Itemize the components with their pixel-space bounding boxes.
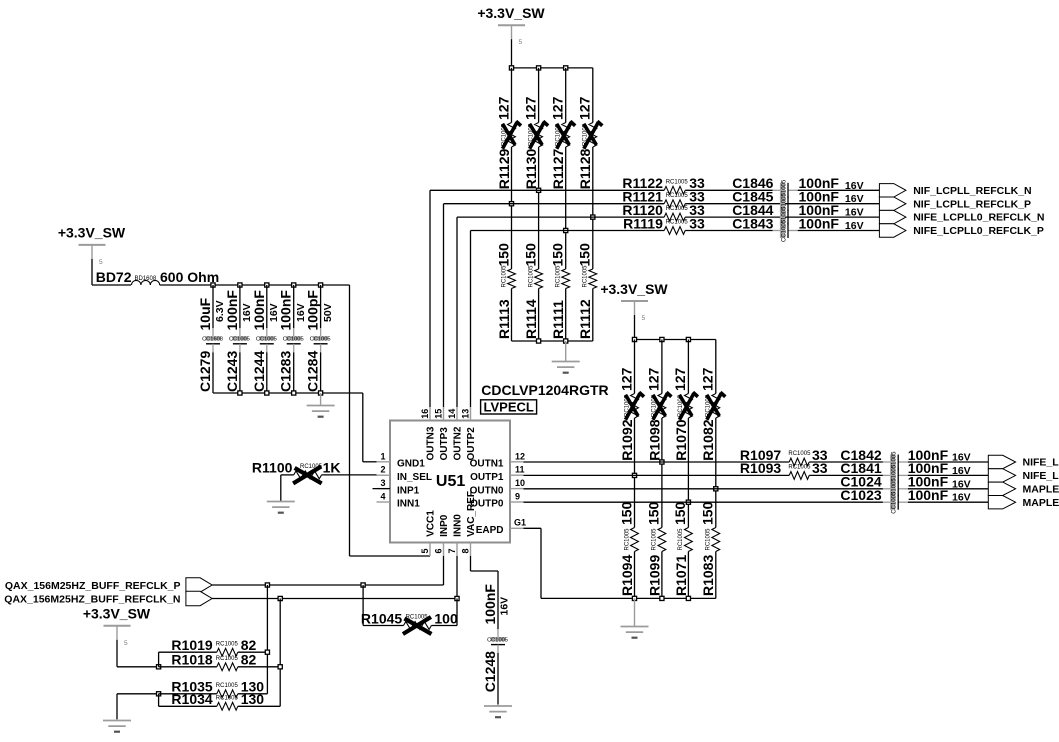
junction array1 bottom bus (537, 339, 568, 343)
svg-text:R1099: R1099 (646, 555, 662, 596)
wire R1119 to cap (685, 230, 773, 232)
svg-text:RC1005: RC1005 (666, 179, 689, 185)
junction array2 top bus (632, 337, 690, 341)
svg-text:R1093: R1093 (740, 460, 781, 476)
wire array2 col 3 (687, 340, 689, 599)
connector NIF_LCPLL_REFCLK_P (879, 197, 1031, 210)
wire array1 col 2 (538, 68, 540, 341)
svg-text:1: 1 (380, 451, 385, 461)
wire net pin10 row (524, 488, 883, 490)
wire R1093 to cap (809, 474, 883, 476)
svg-text:33: 33 (812, 460, 828, 476)
svg-text:82: 82 (241, 652, 257, 668)
power +3.3V_SW (left) (58, 225, 131, 285)
svg-text:OUTN2: OUTN2 (452, 426, 463, 460)
svg-text:RC1005: RC1005 (216, 641, 239, 647)
svg-text:150: 150 (495, 243, 511, 267)
junction R1018 right (278, 665, 282, 669)
wire ground to R1035 (117, 694, 159, 721)
connector MAPLE_REFCLK_N (988, 482, 1059, 495)
svg-text:RC1005: RC1005 (788, 451, 811, 457)
svg-text:127: 127 (646, 367, 662, 391)
svg-text:15: 15 (434, 409, 444, 419)
pin 5 VCC1 (420, 510, 436, 556)
capacitor C1024 100nF (840, 474, 970, 501)
wire array1 top bus (512, 67, 593, 69)
resistor R1114 150 (522, 243, 542, 339)
resistor R1094 150 (618, 501, 638, 596)
inductor BD72 600 Ohm (96, 269, 219, 285)
label LVPECL (481, 400, 537, 415)
svg-text:RC1005: RC1005 (678, 528, 684, 551)
svg-text:100nF: 100nF (278, 290, 294, 331)
svg-text:CC1005: CC1005 (892, 491, 898, 514)
junction QAX_P (265, 583, 365, 587)
svg-text:16V: 16V (499, 597, 511, 616)
svg-text:INN1: INN1 (397, 499, 420, 510)
svg-text:100nF: 100nF (482, 584, 498, 625)
svg-text:OUTP1: OUTP1 (470, 472, 504, 483)
svg-text:9: 9 (515, 492, 520, 502)
svg-text:2: 2 (380, 465, 385, 475)
svg-text:LVPECL: LVPECL (484, 400, 534, 415)
resistor R1082 127 (DNP) (700, 367, 726, 460)
wire R1045 loop (363, 585, 457, 626)
pin 15 OUTP3 (434, 407, 450, 461)
pin 4 INN1 (377, 492, 421, 510)
connector NIFE_LCPLL1_REFCLK_N (988, 455, 1059, 468)
wire R1097 to cap (809, 461, 883, 463)
wire R1035 right (238, 693, 268, 695)
capacitor C1843 100nF (732, 215, 863, 242)
svg-text:IN_SEL: IN_SEL (397, 472, 432, 483)
svg-text:CC1005: CC1005 (310, 337, 331, 343)
pin 10 OUTN0 (470, 478, 525, 496)
svg-text:C1283: C1283 (278, 351, 294, 392)
svg-text:R1094: R1094 (619, 555, 635, 596)
pin 1 GND1 (377, 451, 426, 469)
capacitor C1845 100nF (732, 189, 863, 216)
junction array1 rows (509, 188, 595, 232)
power +3.3V_SW (right) (600, 281, 668, 340)
ground array1 (552, 341, 580, 373)
pin 2 IN_SEL (377, 465, 433, 483)
wire net pin11 row (524, 474, 790, 476)
pin 13 OUTP2 (461, 407, 477, 461)
resistor R1128 127 (DNP) (577, 96, 603, 189)
svg-text:CC1005: CC1005 (283, 337, 304, 343)
junction cap bank bottom (238, 391, 323, 395)
resistor R1130 127 (DNP) (522, 96, 548, 189)
resistor R1018 82 (171, 652, 256, 671)
svg-text:R1071: R1071 (673, 555, 689, 596)
resistor R1035 130 (171, 679, 264, 698)
capacitor C1023 100nF (840, 487, 970, 514)
wire net OUT3 from U51 pin 13 (471, 231, 665, 408)
wire net pin9 row (524, 501, 883, 503)
svg-text:100pF: 100pF (305, 290, 321, 331)
svg-text:RC1005: RC1005 (216, 683, 239, 689)
pin 12 OUTN1 (470, 451, 525, 469)
svg-text:NIFE_LCPLL1_REFCLK_N: NIFE_LCPLL1_REFCLK_N (1023, 457, 1059, 469)
svg-text:INP0: INP0 (439, 514, 450, 537)
wire array2 col 1 (634, 340, 636, 599)
svg-text:CC1005: CC1005 (781, 219, 787, 242)
wire cap C1024 to connector (908, 488, 988, 490)
svg-text:NIFE_LCPLL0_REFCLK_P: NIFE_LCPLL0_REFCLK_P (913, 225, 1044, 237)
svg-text:RC1005: RC1005 (666, 220, 689, 226)
svg-text:INP1: INP1 (397, 485, 420, 496)
wire R1034 right (238, 705, 280, 707)
svg-text:150: 150 (522, 243, 538, 267)
wire R1122 to cap (685, 189, 773, 191)
svg-text:OUTP2: OUTP2 (466, 427, 477, 461)
wire array1 col 1 (511, 68, 513, 341)
wire VCC bus over cap bank (160, 284, 350, 286)
svg-text:R1083: R1083 (700, 555, 716, 596)
wire cap C1846 to connector (798, 189, 880, 191)
power +3.3V_SW (bottom-left) (83, 606, 159, 667)
pin 8 VAC_REF (461, 491, 477, 556)
svg-text:1K: 1K (323, 460, 341, 476)
pin 7 INN0 (447, 514, 463, 556)
svg-text:C1023: C1023 (840, 487, 881, 503)
capacitor C1844 100nF (732, 202, 863, 229)
resistor R1019 82 (171, 637, 256, 656)
wire vertical x280 to QAX_N (279, 599, 281, 707)
svg-text:BD72: BD72 (96, 269, 132, 285)
wire cap C1841 to connector (908, 474, 988, 476)
power +3.3V_SW (top) (477, 5, 545, 68)
resistor R1098 127 (DNP) (646, 367, 672, 460)
wire net QAX_N (212, 556, 457, 599)
connector NIF_LCPLL_REFCLK_N (879, 184, 1031, 197)
wire EAPD to array2 bottom bus (524, 528, 716, 598)
wire cap C1023 to connector (908, 501, 988, 503)
resistor R1099 150 (646, 501, 666, 596)
svg-text:QAX_156M25HZ_BUFF_REFCLK_N: QAX_156M25HZ_BUFF_REFCLK_N (4, 593, 180, 605)
junction array2 rows (632, 460, 718, 504)
svg-text:MAPLE_REFCLK_N: MAPLE_REFCLK_N (1023, 483, 1059, 495)
resistor R1111 150 (550, 243, 570, 339)
wire net OUT1 from U51 pin 15 (444, 204, 665, 407)
pin 16 OUTN3 (420, 407, 436, 461)
wire R1121 to cap (685, 203, 788, 205)
resistor R1121 33 (622, 189, 705, 208)
wire R1035/R1034 left link (159, 694, 217, 707)
wire R1018 right (238, 666, 280, 668)
svg-text:NIF_LCPLL_REFCLK_N: NIF_LCPLL_REFCLK_N (913, 185, 1031, 197)
wire array1 col 3 (565, 68, 567, 341)
pin 14 OUTN2 (447, 407, 463, 461)
resistor R1093 33 (740, 460, 828, 479)
pin 3 INP1 (377, 478, 420, 496)
svg-text:6: 6 (434, 548, 444, 553)
svg-text:127: 127 (550, 96, 566, 120)
svg-text:C1284: C1284 (305, 351, 321, 392)
wire array1 bottom bus (512, 340, 593, 342)
svg-text:R1119: R1119 (623, 215, 663, 231)
svg-text:QAX_156M25HZ_BUFF_REFCLK_P: QAX_156M25HZ_BUFF_REFCLK_P (5, 580, 181, 592)
resistor R1122 33 (622, 175, 705, 194)
svg-text:100nF: 100nF (799, 215, 840, 231)
junction R1019 right (265, 650, 269, 654)
svg-text:5: 5 (519, 39, 523, 46)
svg-text:13: 13 (461, 409, 471, 419)
svg-text:VCC1: VCC1 (425, 510, 436, 537)
svg-text:100: 100 (434, 610, 458, 626)
svg-text:R1034: R1034 (171, 691, 212, 707)
svg-text:50V: 50V (322, 303, 334, 322)
ground array2 (621, 598, 649, 637)
pin 9 OUTP0 (470, 492, 523, 510)
resistor R1120 33 (622, 202, 705, 221)
svg-text:150: 150 (550, 243, 566, 267)
svg-text:5: 5 (420, 548, 430, 553)
svg-text:MAPLE_REFCLK_P: MAPLE_REFCLK_P (1023, 497, 1059, 509)
ground C1248 (484, 704, 512, 717)
svg-text:R1127: R1127 (550, 149, 566, 190)
wire cap bank col C1279 (212, 285, 214, 393)
connector MAPLE_REFCLK_P (988, 496, 1059, 509)
svg-text:127: 127 (672, 367, 688, 391)
wire R1120 to cap (685, 216, 788, 218)
svg-text:RC1005: RC1005 (788, 465, 811, 471)
wire R1019 right (238, 651, 268, 653)
capacitor C1243 100nF (224, 290, 253, 392)
svg-text:150: 150 (646, 501, 662, 525)
svg-text:C1843: C1843 (732, 215, 773, 231)
svg-text:CC1005: CC1005 (487, 637, 508, 643)
junction cap bank top (211, 283, 323, 287)
svg-text:RC1005: RC1005 (666, 206, 689, 212)
svg-text:C1243: C1243 (224, 351, 240, 392)
junction array2 bottom bus (632, 596, 690, 600)
svg-text:OUTN3: OUTN3 (425, 426, 436, 460)
junction QAX_N (278, 596, 459, 600)
svg-text:VAC_REF: VAC_REF (466, 491, 477, 537)
capacitor C1846 100nF (732, 175, 863, 202)
resistor R1100 1K (DNP) (252, 460, 341, 484)
svg-text:C1248: C1248 (482, 651, 498, 692)
pin G1 EAPD (476, 518, 526, 536)
op-amp U51 CDCLVP1204RGTR body (390, 421, 510, 543)
resistor R1112 150 (577, 243, 597, 339)
svg-text:10uF: 10uF (197, 297, 213, 330)
wire net pin12 row (524, 461, 790, 463)
svg-text:R1018: R1018 (171, 652, 212, 668)
svg-text:G1: G1 (514, 518, 526, 528)
connector NIFE_LCPLL1_REFCLK_P (988, 469, 1059, 482)
svg-text:127: 127 (495, 96, 511, 120)
junction array1 top bus (509, 66, 567, 70)
svg-text:C1244: C1244 (251, 351, 267, 392)
wire cap C1844 to connector (788, 216, 879, 218)
svg-text:8: 8 (461, 548, 471, 553)
connector NIFE_LCPLL0_REFCLK_N (879, 210, 1044, 223)
svg-text:14: 14 (447, 409, 457, 419)
svg-text:R1100: R1100 (252, 460, 293, 476)
svg-text:+3.3V_SW: +3.3V_SW (477, 5, 545, 21)
resistor R1113 150 (495, 243, 515, 339)
wire INP1 stub (373, 488, 391, 490)
connector QAX_156M25HZ_BUFF_REFCLK_N (4, 591, 212, 605)
resistor R1045 100 (DNP) (361, 610, 458, 634)
resistor R1127 127 (DNP) (550, 96, 576, 189)
svg-text:5: 5 (124, 640, 128, 647)
svg-text:NIFE_LCPLL1_REFCLK_P: NIFE_LCPLL1_REFCLK_P (1023, 470, 1059, 482)
pin 11 OUTP1 (470, 465, 524, 483)
svg-text:R1019: R1019 (171, 637, 212, 653)
svg-text:150: 150 (577, 243, 593, 267)
svg-text:RC1005: RC1005 (501, 265, 507, 288)
svg-text:C1279: C1279 (197, 351, 213, 392)
svg-text:RC1005: RC1005 (706, 528, 712, 551)
resistor R1092 127 (DNP) (618, 367, 644, 460)
wire C1248 to ground (497, 653, 499, 706)
connector QAX_156M25HZ_BUFF_REFCLK_P (5, 578, 212, 592)
svg-text:NIFE_LCPLL0_REFCLK_N: NIFE_LCPLL0_REFCLK_N (913, 212, 1044, 224)
resistor R1083 150 (700, 501, 720, 596)
capacitor C1283 100nF (278, 290, 307, 392)
svg-text:R1114: R1114 (523, 299, 539, 339)
resistor R1071 150 (672, 501, 692, 596)
svg-text:11: 11 (515, 465, 525, 475)
svg-text:R1112: R1112 (577, 299, 593, 339)
svg-text:R1113: R1113 (496, 299, 512, 339)
svg-text:RC1005: RC1005 (556, 265, 562, 288)
capacitor C1244 100nF (251, 290, 280, 392)
svg-text:R1070: R1070 (673, 419, 689, 460)
svg-text:127: 127 (577, 96, 593, 120)
wire cap bank col C1284 (320, 285, 322, 393)
ground R1100 (267, 502, 295, 513)
resistor R1129 127 (DNP) (495, 96, 521, 189)
junction ground-R1035 (157, 692, 161, 696)
svg-text:RC1005: RC1005 (652, 528, 658, 551)
svg-text:82: 82 (241, 637, 257, 653)
wire VAC_REF to C1248 (471, 556, 499, 629)
wire cap C1845 to connector (788, 203, 879, 205)
svg-text:RC1005: RC1005 (624, 528, 630, 551)
wire array2 col 4 (715, 340, 717, 599)
svg-text:GND1: GND1 (397, 459, 425, 470)
wire vertical x267 to QAX_P (266, 585, 268, 694)
svg-text:RC1005: RC1005 (216, 656, 239, 662)
pin 6 INP0 (434, 514, 450, 556)
wire net OUT0 from U51 pin 16 (430, 190, 664, 407)
capacitor C1842 100nF (840, 447, 970, 474)
wire array2 top bus (635, 339, 716, 341)
connector NIFE_LCPLL0_REFCLK_P (879, 224, 1043, 237)
wire net QAX_P (212, 556, 443, 585)
svg-text:CC1608: CC1608 (202, 337, 223, 343)
svg-text:R1111: R1111 (550, 300, 566, 339)
wire cap C1842 to connector (908, 461, 988, 463)
svg-text:+3.3V_SW: +3.3V_SW (83, 606, 151, 622)
resistor R1034 130 (171, 691, 264, 710)
svg-text:100nF: 100nF (251, 290, 267, 331)
svg-text:4: 4 (380, 492, 385, 502)
capacitor C1841 100nF (840, 460, 970, 487)
wire R1100 left + ground stem (281, 475, 294, 502)
svg-text:127: 127 (618, 367, 634, 391)
svg-text:5: 5 (642, 315, 646, 322)
wire cap bank col C1244 (266, 285, 268, 393)
svg-text:R1092: R1092 (619, 419, 635, 460)
svg-text:R1130: R1130 (523, 149, 539, 190)
label CDCLVP1204RGTR (481, 382, 608, 398)
svg-text:R1045: R1045 (361, 610, 402, 626)
svg-text:150: 150 (672, 501, 688, 525)
svg-text:RC1005: RC1005 (583, 265, 589, 288)
resistor R1070 127 (DNP) (672, 367, 698, 460)
ground bottom-left (103, 719, 131, 732)
resistor R1119 33 (623, 215, 705, 234)
svg-text:RC1005: RC1005 (528, 265, 534, 288)
svg-text:R1082: R1082 (700, 419, 716, 460)
ground cap bank (307, 393, 335, 417)
wire cap bank col C1243 (239, 285, 241, 393)
wire R1100 to IN_SEL pin 2 (322, 474, 377, 476)
svg-text:10: 10 (515, 478, 525, 488)
svg-text:EAPD: EAPD (476, 525, 504, 536)
wire net OUT2 from U51 pin 14 (457, 217, 664, 407)
wire cap bank col C1283 (293, 285, 295, 393)
capacitor C1284 100pF (305, 290, 334, 392)
svg-text:33: 33 (689, 215, 705, 231)
svg-text:RC1005: RC1005 (216, 695, 239, 701)
svg-text:127: 127 (522, 96, 538, 120)
junction power-R1018 (157, 665, 161, 669)
svg-text:100nF: 100nF (908, 487, 949, 503)
resistor R1097 33 (740, 447, 828, 466)
capacitor C1248 100nF (482, 584, 511, 693)
svg-text:RC1005: RC1005 (666, 193, 689, 199)
svg-text:R1128: R1128 (577, 149, 593, 190)
svg-text:U51: U51 (436, 473, 465, 490)
svg-text:CC1005: CC1005 (256, 337, 277, 343)
wire cap C1843 to connector (798, 230, 880, 232)
svg-text:150: 150 (700, 501, 716, 525)
svg-text:+3.3V_SW: +3.3V_SW (600, 281, 668, 297)
svg-text:INN0: INN0 (452, 514, 463, 537)
svg-text:R1098: R1098 (646, 419, 662, 460)
svg-text:3: 3 (380, 478, 385, 488)
wire array2 col 2 (661, 340, 663, 599)
capacitor C1279 10uF (197, 297, 226, 392)
svg-text:100nF: 100nF (224, 290, 240, 331)
svg-text:150: 150 (618, 501, 634, 525)
svg-text:NIF_LCPLL_REFCLK_P: NIF_LCPLL_REFCLK_P (913, 198, 1031, 210)
svg-text:5: 5 (99, 259, 103, 266)
wire VCC down to pin 5 (350, 285, 431, 556)
svg-text:7: 7 (447, 548, 457, 553)
svg-text:16: 16 (420, 409, 430, 419)
svg-text:+3.3V_SW: +3.3V_SW (58, 225, 126, 241)
wire R1019/R1018 left link (159, 652, 217, 667)
svg-text:12: 12 (515, 451, 525, 461)
svg-text:OUTP3: OUTP3 (439, 427, 450, 461)
wire array1 col 4 (592, 68, 594, 341)
svg-text:127: 127 (700, 367, 716, 391)
svg-text:CC1005: CC1005 (229, 337, 250, 343)
svg-text:R1129: R1129 (496, 149, 512, 190)
svg-text:CDCLVP1204RGTR: CDCLVP1204RGTR (481, 382, 608, 398)
wire cap bank bottom bus (GND1 net) (213, 393, 377, 462)
